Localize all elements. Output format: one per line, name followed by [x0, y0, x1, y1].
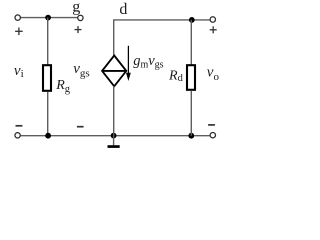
- wire source bottom: [113, 86, 115, 136]
- wire Rg bottom: [47, 92, 49, 136]
- terminal output +: [210, 17, 215, 22]
- minus sign input: [16, 125, 23, 127]
- terminal output -: [210, 133, 215, 138]
- plus sign output: [210, 26, 217, 33]
- minus sign vgs: [77, 126, 84, 128]
- junction source node left: [45, 133, 51, 139]
- junction source node mid: [111, 133, 117, 139]
- wire Rd top: [190, 20, 192, 65]
- resistor Rd: [187, 65, 195, 90]
- svg-text:d: d: [119, 1, 127, 18]
- junction source node right: [188, 133, 194, 139]
- terminal input -: [15, 133, 20, 138]
- terminal g: [78, 15, 83, 20]
- wire top-left rail g-node: [21, 17, 78, 19]
- minus sign output: [208, 124, 215, 126]
- wire bottom rail: [21, 135, 210, 137]
- plus sign input: [15, 28, 23, 36]
- terminal input +: [15, 15, 20, 20]
- wire Rd bottom: [190, 90, 192, 135]
- junction drain node: [189, 17, 195, 23]
- current direction arrow: [126, 46, 131, 81]
- resistor Rg: [43, 65, 51, 91]
- plus sign vgs: [75, 26, 82, 33]
- wire d-node top rail: [114, 20, 210, 56]
- dependent current source gm*vgs: [102, 56, 126, 87]
- ground: [108, 136, 120, 148]
- junction gate node: [45, 15, 51, 21]
- svg-text:g: g: [72, 0, 80, 16]
- wire Rg top: [47, 18, 49, 65]
